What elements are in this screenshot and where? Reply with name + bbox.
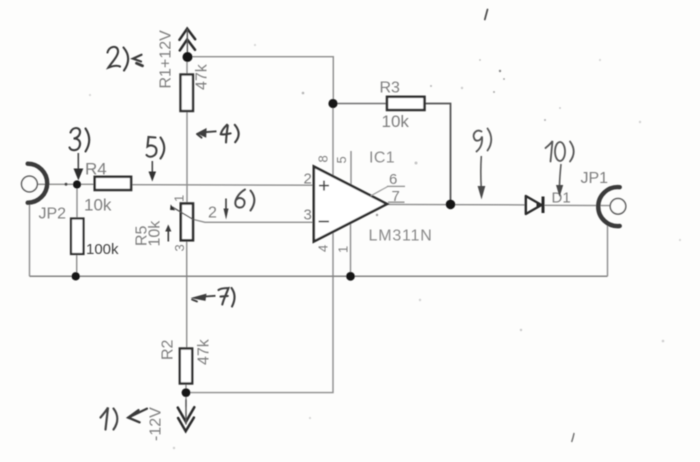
- annotation 3): [70, 128, 90, 152]
- annotation 7) arrow: [205, 295, 216, 298]
- wire R5 bottom through rail to R2 top: [186, 240, 188, 349]
- annotation 2) arrow: [133, 55, 143, 66]
- svg-text:47k: 47k: [196, 338, 213, 365]
- junction node R3 left: [328, 99, 337, 108]
- pin7 underline: [388, 201, 405, 203]
- annotation 5) arrow: [151, 161, 153, 173]
- trimmer R5 adjust arrow: [167, 229, 169, 242]
- connector JP1 arc: [598, 187, 619, 226]
- scan speck marks: [485, 10, 488, 20]
- op-amp U1 triangle: [314, 167, 387, 242]
- svg-text:3: 3: [172, 244, 187, 251]
- svg-text:1: 1: [172, 195, 187, 202]
- power +12V chevron: [180, 29, 196, 55]
- wire R3 left: [333, 103, 387, 105]
- svg-text:2: 2: [304, 171, 312, 188]
- wire R2 node to pin4 riser: [186, 232, 333, 393]
- resistor R1 body: [181, 75, 194, 112]
- svg-text:-12V: -12V: [148, 407, 165, 441]
- svg-text:1: 1: [336, 246, 351, 253]
- svg-text:IC1: IC1: [369, 150, 395, 167]
- connector JP2 pin circle: [22, 176, 38, 192]
- wire R1 bottom to R5 top: [186, 111, 188, 204]
- resistor R4 body: [95, 177, 131, 190]
- wire JP2 to R4: [37, 183, 94, 185]
- svg-text:100k: 100k: [86, 241, 119, 258]
- wire JP1 riser from rail: [607, 223, 609, 277]
- svg-text:5: 5: [334, 156, 349, 163]
- diode D1: [526, 196, 542, 214]
- annotation 2): [108, 47, 129, 71]
- svg-text:R1: R1: [158, 68, 175, 89]
- svg-text:6: 6: [389, 171, 397, 188]
- resistor 100k body: [71, 219, 84, 255]
- wire ground rail: [30, 275, 608, 277]
- wire diode to JP1: [543, 204, 611, 206]
- annotation 6): [235, 190, 254, 211]
- junction node -12V: [182, 388, 191, 397]
- svg-text:10k: 10k: [382, 112, 410, 131]
- wire R4 to op-amp pin2: [131, 184, 314, 187]
- svg-text:JP2: JP2: [39, 206, 67, 223]
- annotation 7): [219, 288, 235, 307]
- junction node input: [73, 180, 81, 188]
- wire top rail from +12V node to pin8 column: [188, 57, 334, 104]
- annotation 4): [221, 125, 239, 143]
- svg-text:10k: 10k: [84, 196, 112, 215]
- wire R5 wiper to op-amp pin3: [194, 220, 314, 223]
- connector JP2 arc: [28, 164, 48, 203]
- svg-text:D1: D1: [552, 190, 571, 207]
- op-amp minus sign: [319, 221, 330, 223]
- annotation 1) arrow: [128, 409, 147, 418]
- pin6 leader and underline: [371, 187, 388, 196]
- annotation 10) arrow: [560, 164, 562, 186]
- svg-text:R4: R4: [85, 160, 107, 179]
- trimmer R5 wiper: [172, 207, 194, 220]
- power -12V chevron: [178, 400, 195, 431]
- wire pin5 stub: [350, 151, 352, 187]
- op-amp plus sign: [319, 181, 329, 191]
- junction node +12V: [183, 52, 193, 62]
- svg-text:R3: R3: [380, 80, 401, 97]
- svg-text:2: 2: [208, 205, 217, 222]
- resistor R3 body: [387, 97, 425, 110]
- small dot artifact: [65, 183, 68, 186]
- annotation 5): [147, 137, 165, 159]
- wire pin8 line: [332, 104, 334, 178]
- wire R1 top stub: [186, 57, 188, 75]
- trimmer R5 body: [181, 204, 193, 241]
- annotation 10): [546, 141, 574, 162]
- wire 100k bottom: [76, 254, 78, 276]
- annotation 4) arrow: [203, 131, 217, 132]
- connector JP1 pin circle: [610, 199, 626, 215]
- annotation 9): [474, 129, 492, 152]
- annotation 1): [101, 408, 118, 430]
- svg-text:7: 7: [392, 188, 400, 205]
- svg-text:JP1: JP1: [581, 170, 609, 187]
- annotation 3) arrow: [77, 153, 79, 170]
- svg-text:47k: 47k: [194, 63, 211, 90]
- resistor R2 body: [180, 349, 192, 384]
- wire R2 bottom to -12V chevron: [185, 384, 187, 408]
- svg-text:R2: R2: [160, 339, 177, 360]
- annotation 6) arrow: [225, 199, 227, 210]
- junction node ground left: [72, 272, 80, 280]
- svg-text:LM311N: LM311N: [369, 228, 433, 245]
- wire pin1 line to ground rail: [350, 223, 352, 277]
- junction node output: [446, 200, 456, 210]
- annotation 9) arrow: [480, 156, 482, 187]
- svg-text:4: 4: [316, 245, 331, 252]
- wire JP2 shield down: [29, 203, 31, 277]
- wire op-amp output to diode: [387, 203, 526, 206]
- svg-text:8: 8: [316, 155, 331, 162]
- svg-text:3: 3: [304, 207, 312, 224]
- wire 100k top: [76, 185, 78, 219]
- wire R3 right and drop to output: [426, 104, 451, 205]
- junction node ground pin1: [346, 272, 355, 281]
- svg-text:10k: 10k: [147, 220, 164, 247]
- svg-text:+12V: +12V: [158, 30, 175, 68]
